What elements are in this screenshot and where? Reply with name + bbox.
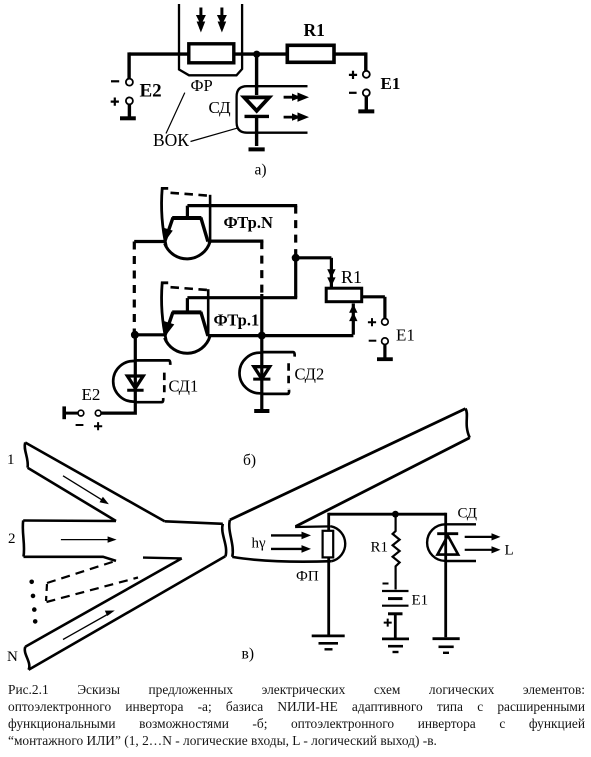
resistor R1 box (a) (287, 45, 334, 62)
ground of E1 (b) (377, 345, 393, 359)
base wire FTr.1 (b) (187, 296, 297, 299)
trunk end wavy cut (v) (222, 524, 226, 557)
label v) (242, 646, 254, 663)
resistor R1 zigzag (v) (393, 514, 400, 589)
label E2 (b) (82, 385, 101, 404)
funnel mouth line (v) (295, 525, 331, 528)
label SD2 (b) (295, 365, 325, 384)
wire battery to ground (v) (394, 614, 397, 638)
svg-text:б): б) (243, 452, 256, 469)
LED SD2 diode (b) (253, 367, 270, 379)
svg-text:СД1: СД1 (169, 377, 199, 396)
E1 polarity signs (a) (349, 71, 357, 93)
label FP (v) (296, 569, 319, 585)
svg-text:в): в) (242, 646, 254, 663)
wire FP to ground (v) (327, 557, 330, 634)
wire junction down to LED (a) (255, 54, 258, 95)
label E1 (a) (381, 74, 401, 93)
arrow into R1 top (b) (327, 269, 335, 286)
photoresistor box of FP (v) (323, 531, 334, 558)
base wire FTr.N (b) (187, 204, 297, 207)
svg-text:ФП: ФП (296, 569, 319, 585)
label R1 (a) (304, 20, 325, 40)
svg-text:hγ: hγ (252, 536, 267, 552)
wire photoresistor to R1 (a) (234, 52, 288, 55)
phototransistor FTr.1 (b) (164, 298, 210, 353)
caption line 3 (8, 715, 585, 732)
optical fiber input 1 (v) (25, 443, 165, 522)
photodetector FP envelope (v) (331, 526, 345, 561)
E2 polarity signs (a) (111, 81, 120, 105)
label R1 (v) (371, 540, 389, 556)
collector wire FTr.N (b) (208, 240, 264, 243)
light output arrows of LED (a) (284, 93, 309, 122)
optical fiber input N (v) (25, 556, 226, 670)
label L (v) (505, 543, 514, 559)
ground of E2 (a) (120, 105, 136, 118)
emitter wire FTr.1 (b) (134, 333, 165, 336)
svg-text:R1: R1 (341, 267, 362, 287)
wire E2 to photoresistor (a) (129, 52, 188, 79)
ground of FP (v) (312, 636, 345, 649)
node junction dot (a) (253, 51, 260, 58)
output fiber band top edge (v) (230, 409, 466, 520)
dashed intermediate fiber (v) (46, 561, 138, 602)
light output arrows of SD (v) (465, 533, 501, 553)
svg-text:Е1: Е1 (381, 74, 401, 93)
optical fiber enclosure around photoresistor (a) (179, 4, 242, 75)
LED SD envelope (v) (427, 524, 476, 561)
funnel bottom edge to FP (v) (232, 557, 331, 562)
connector wavy cut (v) (229, 520, 233, 557)
label a) (255, 162, 267, 179)
wire SD2 to ground (b) (260, 336, 263, 410)
LED SD diode (a) (244, 97, 269, 146)
optical fiber input 2 (v) (23, 521, 116, 561)
output fiber band lower edge (v) (296, 438, 470, 527)
node SD2 junction (b) (258, 332, 266, 340)
battery minus sign (v) (383, 583, 389, 585)
photoresistor FR box (a) (189, 44, 234, 63)
dashed base bus (b) (294, 206, 297, 256)
emitter wire FTr.N (b) (134, 240, 165, 243)
svg-text:L: L (505, 543, 514, 559)
ground of E1 (a) (358, 97, 374, 112)
label 2 (v) (8, 531, 16, 547)
ground of SD (v) (433, 639, 460, 653)
phototransistor FTr.1 envelope (b) (162, 283, 209, 341)
label SD (a) (209, 98, 231, 117)
light arrow in fiber 1 (v) (63, 476, 109, 504)
wire FP to bus (v) (329, 513, 446, 531)
caption line 4 (8, 732, 585, 749)
LED SD1 envelope (b) (113, 360, 170, 402)
label SD (v) (458, 506, 478, 522)
svg-text:ФР: ФР (191, 76, 213, 95)
label R1 (b) (341, 267, 362, 287)
light arrows into FP (v) (271, 532, 311, 553)
svg-text:а): а) (255, 162, 267, 179)
wire junction to FTr.1 base (b) (294, 256, 297, 298)
svg-text:ФТр.N: ФТр.N (224, 213, 273, 232)
caption line 1 (8, 681, 585, 698)
svg-text:СД: СД (209, 98, 231, 117)
LED SD diode (v) (437, 534, 458, 555)
svg-text:Е2: Е2 (82, 385, 101, 404)
ground of battery (v) (382, 639, 409, 652)
svg-text:N: N (7, 649, 18, 665)
svg-text:Е1: Е1 (412, 593, 429, 609)
label FR (a) (191, 76, 213, 95)
node emitter bus junction (b) (131, 331, 139, 339)
label FTr.1 (b) (214, 311, 260, 330)
label N (v) (7, 649, 18, 665)
wire R1 to E1 (a) (334, 52, 366, 70)
collector wire FTr.1 (b) (208, 334, 354, 337)
trunk bottom wedge segment (v) (143, 556, 182, 559)
LED SD2 envelope (b) (239, 352, 294, 394)
wiper arrow of R1 (b) (349, 304, 357, 335)
svg-text:R1: R1 (371, 540, 389, 556)
battery E1 plates (v) (382, 591, 409, 614)
label VOK with leader lines (a) (153, 93, 237, 150)
caption line 2 (8, 698, 585, 715)
LED SD1 diode (b) (127, 376, 143, 390)
output fiber band end cut (v) (466, 409, 470, 438)
svg-text:СД2: СД2 (295, 365, 325, 384)
svg-text:Е1: Е1 (396, 326, 415, 345)
svg-text:ВОК: ВОК (153, 130, 189, 150)
E2 terminal circles (a) (126, 79, 133, 105)
node collector bus junction (b) (292, 254, 300, 262)
light input arrows (a) (196, 8, 227, 33)
label b) (243, 452, 256, 469)
trunk top edge (v) (165, 521, 223, 524)
svg-text:ФТр.1: ФТр.1 (214, 311, 260, 330)
svg-text:R1: R1 (304, 20, 325, 40)
E1 terminal circles (b) (382, 319, 389, 345)
svg-text:2: 2 (8, 531, 16, 547)
ground of SD2 (b) (254, 409, 269, 413)
light arrow in fiber 2 (v) (61, 536, 117, 542)
wire R1 to E1 (b) (362, 297, 385, 319)
wire bus down through LED SD (v) (444, 513, 447, 638)
phototransistor FTr.N (b) (164, 206, 210, 259)
label E1 (b) (396, 326, 415, 345)
label h-gamma (v) (252, 536, 267, 552)
ground of LED (a) (249, 147, 265, 151)
label E1 (v) (412, 593, 429, 609)
node bus junction dot (v) (392, 511, 399, 518)
svg-text:Е2: Е2 (140, 81, 162, 102)
resistor R1 box (b) (326, 288, 362, 302)
ellipsis dots (v) (29, 580, 37, 624)
label 1 (v) (7, 452, 15, 468)
svg-text:СД: СД (458, 506, 478, 522)
E2 side ground (b) (64, 406, 77, 419)
dashed emitter bus (b) (133, 242, 136, 335)
E1 terminal circles (a) (363, 71, 370, 97)
E1 polarity signs (b) (368, 318, 376, 341)
optical fiber enclosure around LED (a) (237, 86, 308, 133)
label E2 (a) (140, 81, 162, 102)
svg-text:1: 1 (7, 452, 15, 468)
wire collector bus to R1 (b) (296, 258, 332, 288)
phototransistor FTr.N envelope (b) (162, 188, 211, 246)
light arrow in fiber N (v) (63, 611, 115, 640)
wire emitter bus down through SD1 to E2 (b) (100, 335, 137, 413)
battery plus sign (v) (384, 619, 392, 627)
E2 polarity signs (b) (76, 422, 103, 430)
dashed collector link to SD2 (b) (260, 241, 263, 336)
label FTr.N (b) (224, 213, 273, 232)
E2 terminal circles (b) (78, 410, 101, 416)
label SD1 (b) (169, 377, 199, 396)
